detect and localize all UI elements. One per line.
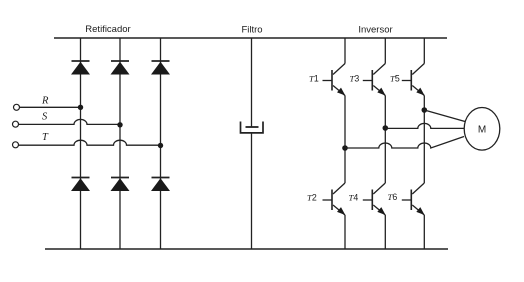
svg-text:M: M <box>478 124 486 135</box>
diode D3 (upper, branch 3) <box>151 61 170 75</box>
wire: rectifier branch 1 vertical <box>80 38 82 249</box>
svg-text:R: R <box>41 96 49 107</box>
svg-text:Inversor: Inversor <box>358 25 392 36</box>
wire: phase T with hops over branches 1 and 2 <box>19 140 161 145</box>
wire: output to motor (bottom) with hops over branches 2 and 3 <box>345 137 464 149</box>
wire: rectifier branch 2 vertical <box>119 38 121 249</box>
transistor T3 <box>363 64 386 96</box>
svg-text:T6: T6 <box>388 192 398 202</box>
diode D4 (lower, branch 1) <box>71 178 90 192</box>
diode D5 (lower, branch 2) <box>111 178 130 192</box>
svg-text:T1: T1 <box>309 74 319 84</box>
diode D2 (upper, branch 2) <box>111 61 130 75</box>
wire: output to motor (top) <box>424 110 465 122</box>
wire: top DC bus <box>54 37 447 39</box>
svg-text:S: S <box>42 112 48 123</box>
svg-text:T4: T4 <box>349 193 359 203</box>
terminal T (input circle) <box>13 142 19 148</box>
wire: rectifier branch 3 vertical <box>160 38 162 249</box>
wire: inverter branch 3 vertical segments <box>423 38 425 249</box>
wire: bottom DC bus <box>45 248 448 250</box>
svg-text:T5: T5 <box>390 74 400 84</box>
transistor T1 <box>323 64 346 96</box>
svg-text:Retificador: Retificador <box>85 24 130 35</box>
wire: output to motor (middle) with hop over branch 3 <box>385 123 464 128</box>
transistor T2 <box>323 183 346 215</box>
wire: inverter branch 2 vertical segments <box>384 38 386 249</box>
wire: filter branch upper <box>251 38 253 127</box>
junction: output phase W on branch 1 <box>342 145 348 151</box>
wire: filter branch lower <box>251 133 253 249</box>
junction: output phase U on branch 3 <box>422 107 428 113</box>
junction: T to branch 3 <box>158 143 163 148</box>
svg-text:Filtro: Filtro <box>241 25 262 36</box>
svg-text:T: T <box>42 132 49 143</box>
diode D6 (lower, branch 3) <box>151 178 170 192</box>
svg-text:T2: T2 <box>307 193 317 203</box>
wire: phase S with hop over branch 1 <box>19 119 121 124</box>
motor M <box>464 108 500 151</box>
junction: S to branch 2 <box>117 122 122 127</box>
transistor T5 <box>402 64 425 96</box>
junction: output phase V on branch 2 <box>383 125 389 131</box>
transistor T4 <box>363 183 386 215</box>
diode D1 (upper, branch 1) <box>71 61 90 75</box>
svg-text:T3: T3 <box>350 74 360 84</box>
terminal R (input circle) <box>14 104 20 110</box>
transistor T6 <box>402 183 425 215</box>
terminal S (input circle) <box>13 121 19 127</box>
junction: R to branch 1 <box>78 105 83 110</box>
wire: phase R <box>20 106 81 108</box>
capacitor C1 (filter, electrolytic) <box>241 122 264 133</box>
wire: inverter branch 1 vertical segments <box>344 38 346 249</box>
